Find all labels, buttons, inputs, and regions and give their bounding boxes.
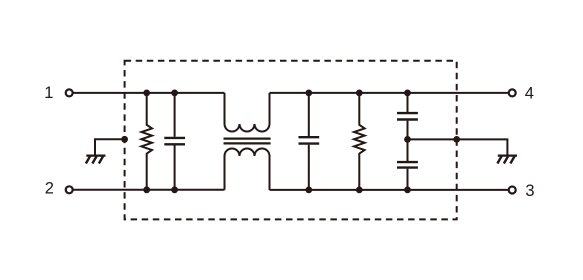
ground left (chassis) (86, 156, 106, 164)
capacitor C4 (397, 139, 418, 190)
wire top line right of choke (270, 92, 509, 94)
wire left case node to ground (95, 139, 125, 154)
common-mode choke L1 core (224, 139, 271, 144)
junction dot case left (121, 136, 128, 143)
terminal label 2 (45, 180, 54, 198)
svg-text:2: 2 (45, 180, 54, 198)
resistor R2 (354, 93, 365, 190)
capacitor C1 (164, 93, 185, 190)
junction dot bottom C1 (171, 186, 178, 193)
terminal 1 (66, 89, 73, 96)
svg-text:4: 4 (525, 85, 534, 103)
junction dot top R1 (143, 90, 150, 97)
resistor R1 (141, 93, 152, 190)
junction dot bottom R2 (356, 187, 363, 194)
terminal label 1 (44, 84, 53, 102)
wire bottom line right of choke (270, 189, 509, 191)
capacitor C2 (299, 93, 320, 190)
junction dot case right (453, 136, 460, 143)
junction dot top C2 (305, 90, 312, 97)
svg-text:1: 1 (44, 84, 53, 102)
junction dot top C3 (404, 90, 411, 97)
terminal label 4 (525, 85, 534, 103)
wire top line left of choke (74, 92, 225, 94)
terminal 4 (509, 89, 516, 96)
junction dot bottom R1 (143, 186, 150, 193)
junction dot bottom C4 (404, 187, 411, 194)
ground right (chassis) (497, 156, 517, 164)
wire bottom line left of choke (74, 189, 225, 191)
junction dot top C1 (171, 90, 178, 97)
terminal 2 (66, 186, 73, 193)
common-mode choke L1 top winding (225, 93, 270, 132)
wire mid node to right ground (408, 139, 508, 154)
common-mode choke L1 bottom winding (225, 149, 270, 190)
junction dot mid C3-C4 (404, 136, 411, 143)
junction dot top R2 (356, 90, 363, 97)
enclosure dashed box (125, 61, 457, 220)
terminal label 3 (525, 182, 534, 200)
terminal 3 (509, 187, 516, 194)
junction dot bottom C2 (305, 187, 312, 194)
svg-text:3: 3 (525, 182, 534, 200)
capacitor C3 (397, 93, 418, 139)
